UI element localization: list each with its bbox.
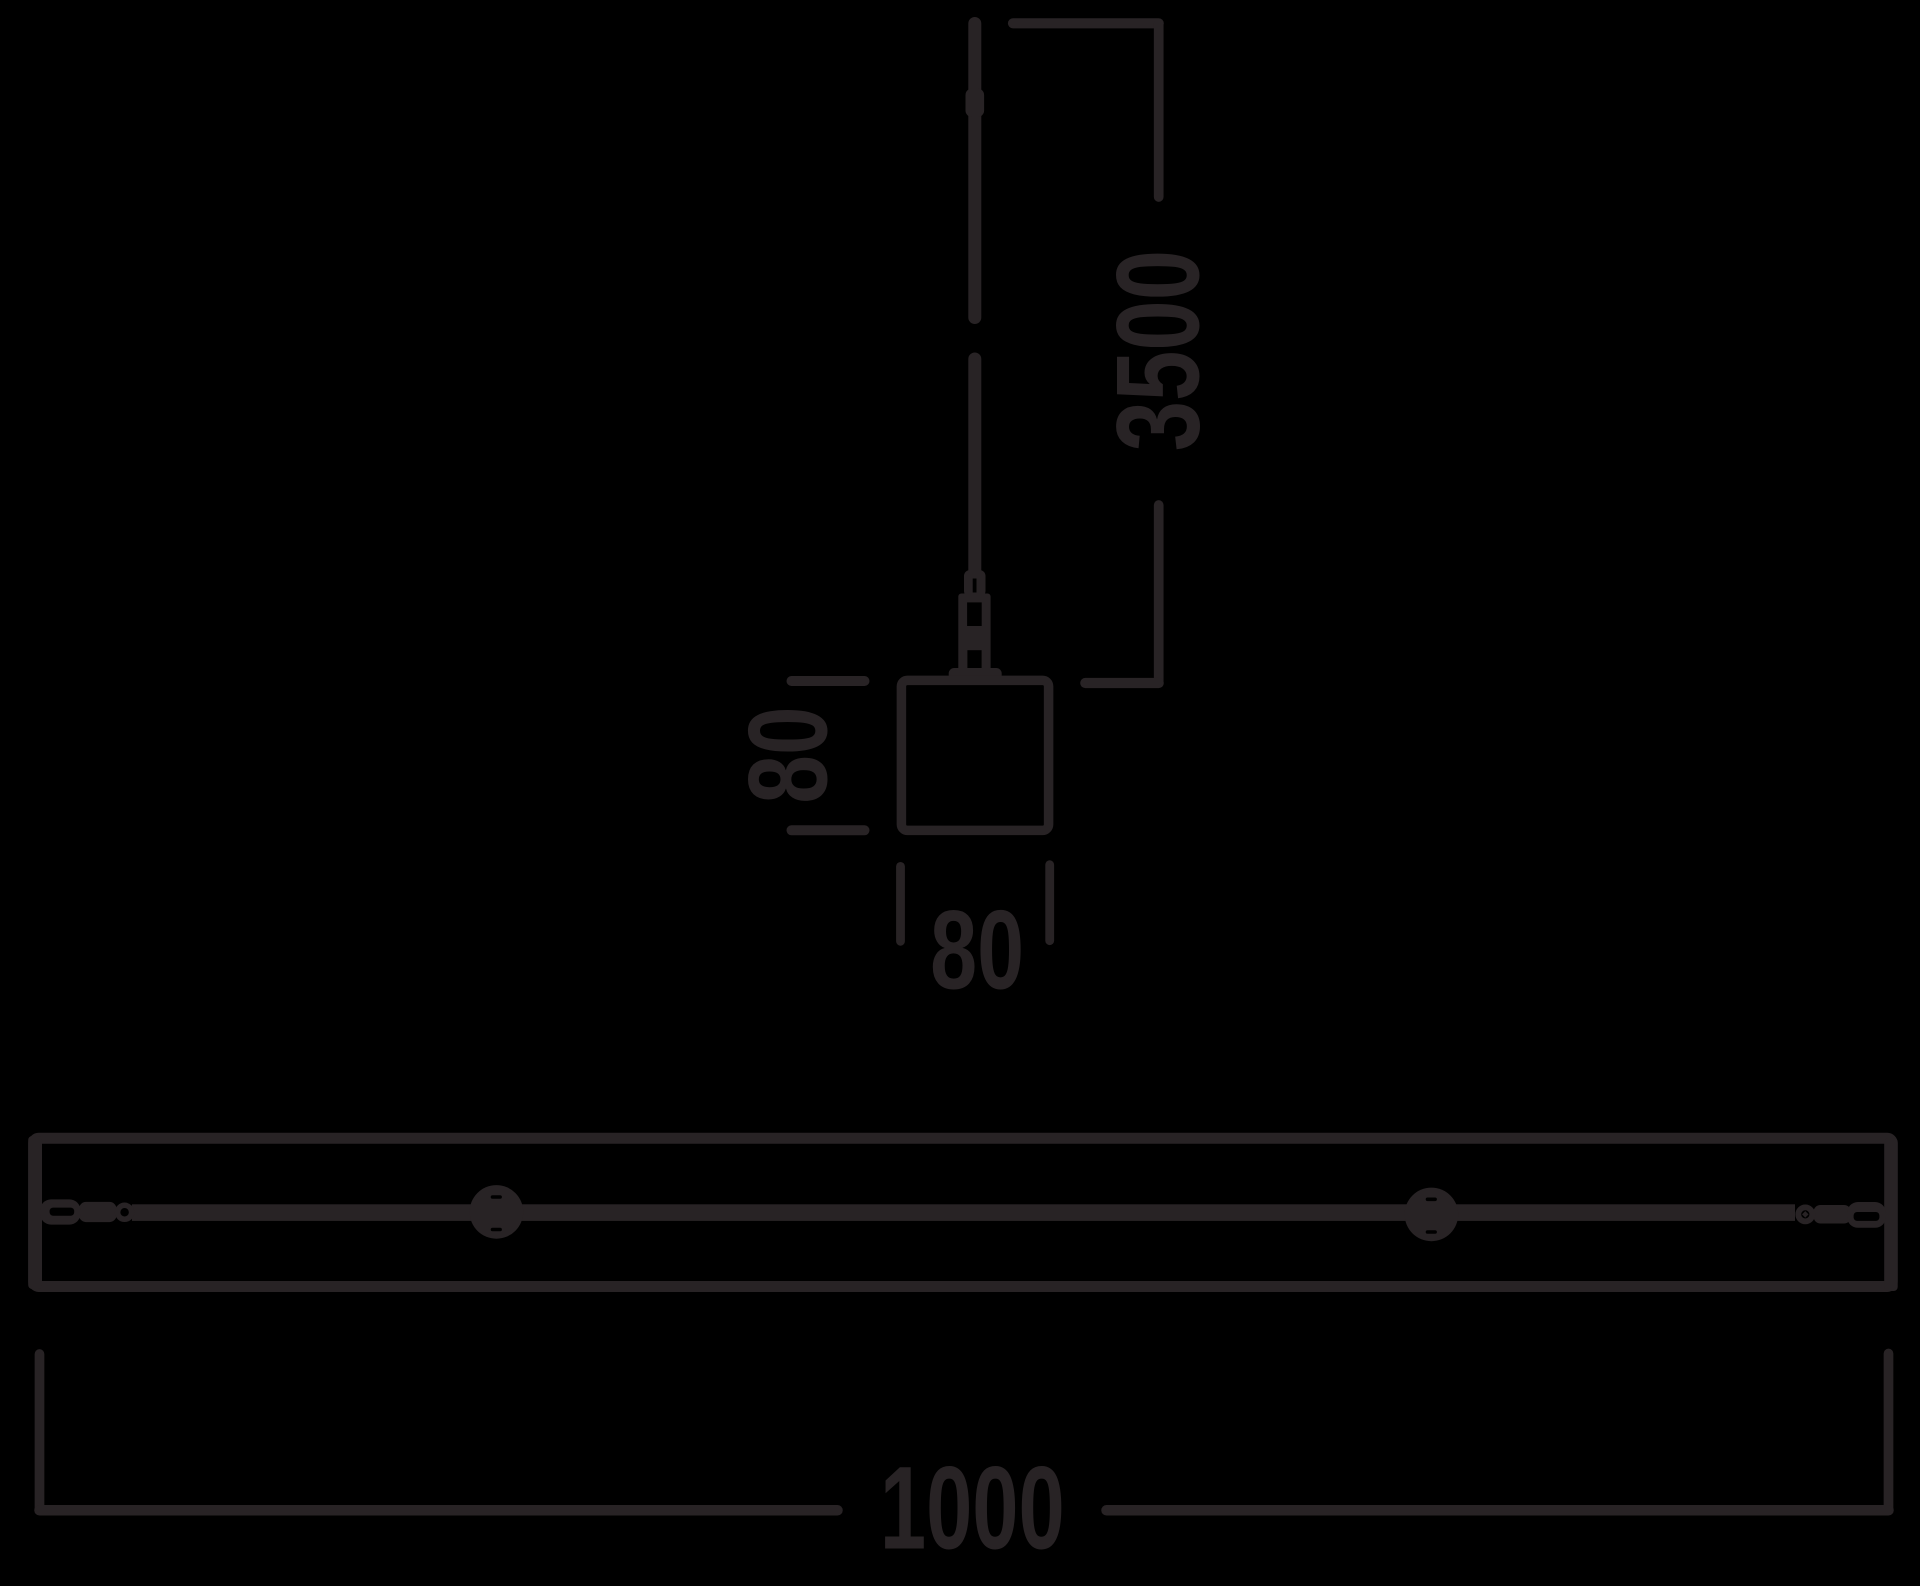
dimension 1000: right horizontal segment	[1107, 1505, 1889, 1516]
dimension 1000: left horizontal segment	[40, 1505, 838, 1516]
left cable grip disc	[470, 1185, 524, 1239]
pendant box (side view, 80x80)	[901, 680, 1048, 830]
dimension 80 (box width): left tick	[896, 866, 905, 941]
svg-text:3500: 3500	[1093, 250, 1224, 451]
dimension 3500: bottom tick	[1085, 678, 1158, 688]
dimension 80 (box height): bottom tick	[792, 825, 865, 835]
label 1000	[880, 1442, 1065, 1574]
right turnbuckle joint	[1814, 1205, 1852, 1224]
label 3500 (rotated)	[1093, 250, 1224, 451]
dimension 80 (box height): top tick	[792, 676, 865, 686]
cable joiner collar	[966, 89, 985, 118]
label 80 bottom	[930, 888, 1024, 1014]
suspension rod inside housing	[132, 1204, 1795, 1221]
left ring	[118, 1205, 132, 1219]
left turnbuckle joint	[79, 1202, 117, 1222]
cord grip body	[958, 594, 990, 676]
right ring	[1798, 1207, 1812, 1221]
right eyelet plate	[1847, 1202, 1886, 1228]
cord grip collar	[964, 570, 986, 597]
svg-text:1000: 1000	[880, 1442, 1065, 1574]
right cable grip disc	[1405, 1188, 1459, 1242]
dimension 3500: vertical line lower segment	[1154, 505, 1164, 683]
dimension 3500: top horizontal line	[1013, 18, 1159, 28]
label 80 left (rotated)	[726, 706, 851, 803]
svg-text:80: 80	[726, 706, 851, 803]
dimension 1000: right bracket vertical	[1884, 1354, 1894, 1511]
svg-text:80: 80	[930, 888, 1024, 1014]
wire: suspension cable lower segment	[968, 359, 981, 572]
dimension 1000: left bracket vertical	[35, 1354, 45, 1510]
left eyelet plate	[40, 1199, 81, 1224]
dimension 3500: vertical line upper segment	[1154, 23, 1164, 197]
linear fixture housing (front view)	[28, 1136, 1898, 1291]
wire: suspension cable upper segment	[968, 24, 981, 318]
dimension 80 (box width): right tick	[1045, 865, 1054, 941]
cord grip flange	[949, 668, 1002, 681]
